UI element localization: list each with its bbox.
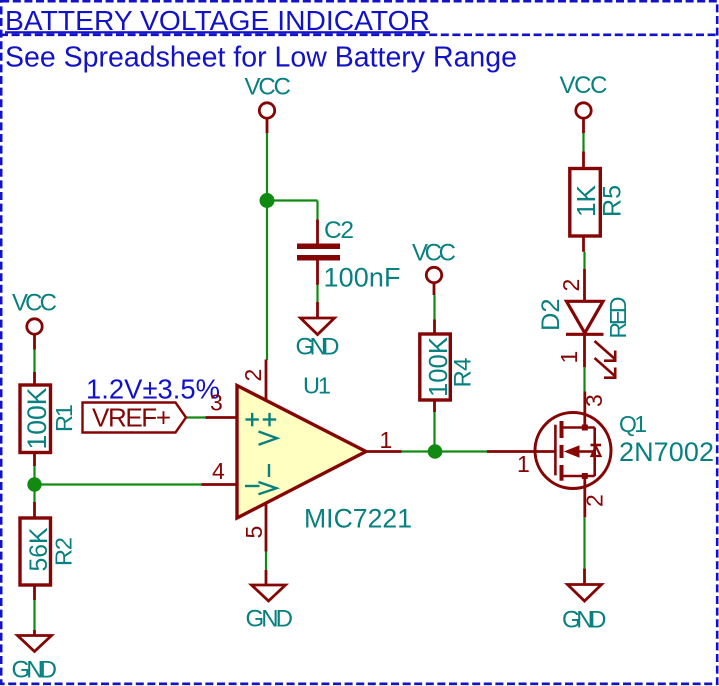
svg-text:2: 2 [582,494,608,507]
svg-text:U1: U1 [303,373,331,399]
svg-text:1.2V±3.5%: 1.2V±3.5% [86,374,220,405]
svg-text:3: 3 [210,390,223,416]
svg-text:GND: GND [12,657,58,684]
svg-text:VCC: VCC [560,72,608,99]
svg-text:5: 5 [241,526,267,539]
svg-text:100nF: 100nF [324,263,401,293]
svg-text:RED: RED [605,297,631,339]
svg-text:R5: R5 [599,185,627,217]
svg-text:R4: R4 [450,358,477,388]
svg-text:56K: 56K [26,527,53,572]
svg-text:GND: GND [246,606,294,633]
svg-text:D2: D2 [537,299,565,332]
svg-text:2: 2 [240,369,266,382]
svg-text:GND: GND [296,334,340,361]
svg-text:GND: GND [562,607,607,634]
svg-text:See Spreadsheet for Low Batter: See Spreadsheet for Low Battery Range [5,42,517,74]
svg-text:C2: C2 [324,217,354,244]
svg-text:1K: 1K [571,184,601,217]
svg-text:VCC: VCC [12,290,57,317]
svg-text:R2: R2 [51,537,77,566]
svg-text:2: 2 [558,279,584,292]
svg-text:VCC: VCC [412,240,456,267]
svg-text:1: 1 [556,351,582,364]
svg-text:MIC7221: MIC7221 [304,504,412,534]
svg-text:1: 1 [380,427,393,453]
svg-text:2N7002: 2N7002 [619,437,714,467]
svg-text:100K: 100K [22,387,52,449]
svg-text:R1: R1 [51,404,77,432]
svg-text:Q1: Q1 [619,411,647,437]
svg-text:4: 4 [212,458,225,484]
svg-text:1: 1 [517,451,530,477]
svg-text:VCC: VCC [245,74,292,101]
svg-text:VREF+: VREF+ [92,403,171,433]
svg-text:3: 3 [581,394,607,407]
